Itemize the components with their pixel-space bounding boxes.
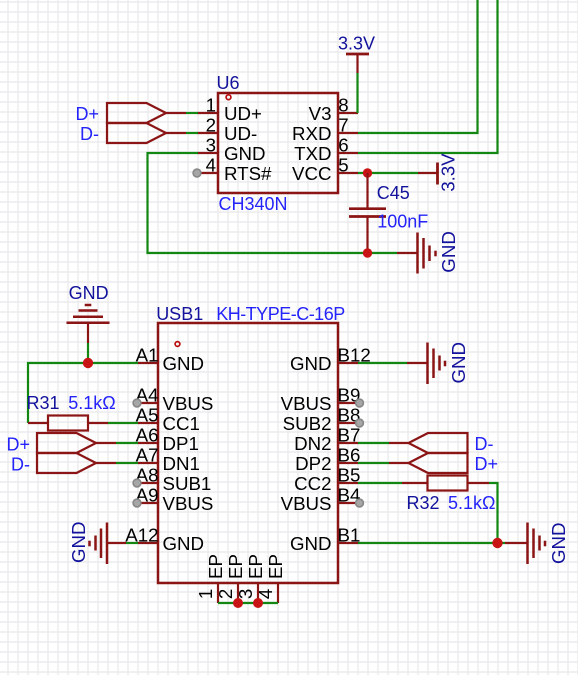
svg-text:A7: A7 <box>136 445 159 466</box>
svg-text:USB1: USB1 <box>156 304 203 324</box>
svg-text:3: 3 <box>206 135 216 156</box>
svg-text:EP: EP <box>205 554 226 579</box>
svg-text:8: 8 <box>338 95 348 116</box>
svg-text:GND: GND <box>69 283 109 303</box>
svg-text:4: 4 <box>206 155 216 176</box>
svg-text:EP: EP <box>245 554 266 579</box>
svg-text:2: 2 <box>215 589 236 599</box>
svg-text:EP: EP <box>225 554 246 579</box>
svg-text:D-: D- <box>475 434 494 454</box>
svg-text:R315.1kΩ: R315.1kΩ <box>27 393 116 413</box>
svg-text:B5: B5 <box>338 465 361 486</box>
svg-text:DN2: DN2 <box>294 433 331 454</box>
svg-text:VBUS: VBUS <box>281 393 332 414</box>
svg-text:D+: D+ <box>75 104 99 124</box>
svg-text:A5: A5 <box>136 405 159 426</box>
svg-text:KH-TYPE-C-16P: KH-TYPE-C-16P <box>216 304 345 324</box>
svg-text:CH340N: CH340N <box>219 194 288 214</box>
svg-text:VCC: VCC <box>292 163 331 184</box>
svg-text:U6: U6 <box>217 73 240 93</box>
svg-text:4: 4 <box>255 589 276 599</box>
svg-text:GND: GND <box>438 231 459 273</box>
svg-text:UD-: UD- <box>224 123 257 144</box>
svg-text:GND: GND <box>224 143 266 164</box>
svg-text:D-: D- <box>80 124 99 144</box>
svg-text:B6: B6 <box>338 445 361 466</box>
svg-text:RTS#: RTS# <box>224 163 272 184</box>
svg-text:C45: C45 <box>377 183 410 203</box>
svg-text:VBUS: VBUS <box>163 393 214 414</box>
svg-text:DP1: DP1 <box>163 433 199 454</box>
svg-text:VBUS: VBUS <box>281 493 332 514</box>
svg-text:B7: B7 <box>338 425 361 446</box>
svg-text:D+: D+ <box>475 454 499 474</box>
svg-text:1: 1 <box>195 589 216 599</box>
svg-text:TXD: TXD <box>294 143 331 164</box>
svg-text:GND: GND <box>290 353 332 374</box>
svg-text:3.3V: 3.3V <box>338 34 375 54</box>
svg-text:SUB2: SUB2 <box>283 413 332 434</box>
svg-text:5: 5 <box>338 155 348 176</box>
svg-text:A6: A6 <box>136 425 159 446</box>
svg-text:GND: GND <box>163 533 205 554</box>
svg-text:7: 7 <box>338 115 348 136</box>
svg-text:D+: D+ <box>6 435 30 455</box>
svg-text:1: 1 <box>206 95 216 116</box>
svg-text:RXD: RXD <box>292 123 331 144</box>
svg-text:3: 3 <box>235 589 256 599</box>
svg-text:DN1: DN1 <box>163 453 200 474</box>
svg-text:SUB1: SUB1 <box>163 473 212 494</box>
svg-text:A1: A1 <box>136 345 159 366</box>
svg-text:EP: EP <box>265 554 286 579</box>
svg-text:6: 6 <box>338 135 348 156</box>
svg-text:CC2: CC2 <box>294 473 331 494</box>
svg-text:GND: GND <box>290 533 332 554</box>
svg-text:D-: D- <box>11 455 30 475</box>
svg-text:VBUS: VBUS <box>163 493 214 514</box>
svg-text:R325.1kΩ: R325.1kΩ <box>407 493 496 513</box>
svg-text:GND: GND <box>163 353 205 374</box>
svg-text:100nF: 100nF <box>377 212 428 232</box>
svg-text:CC1: CC1 <box>163 413 200 434</box>
svg-text:GND: GND <box>68 521 89 563</box>
svg-text:B1: B1 <box>338 525 361 546</box>
svg-text:GND: GND <box>548 522 569 564</box>
svg-text:UD+: UD+ <box>224 103 262 124</box>
svg-text:3.3V: 3.3V <box>438 153 459 192</box>
svg-text:2: 2 <box>206 115 216 136</box>
svg-text:V3: V3 <box>309 103 332 124</box>
svg-text:DP2: DP2 <box>295 453 331 474</box>
svg-text:GND: GND <box>448 342 469 384</box>
